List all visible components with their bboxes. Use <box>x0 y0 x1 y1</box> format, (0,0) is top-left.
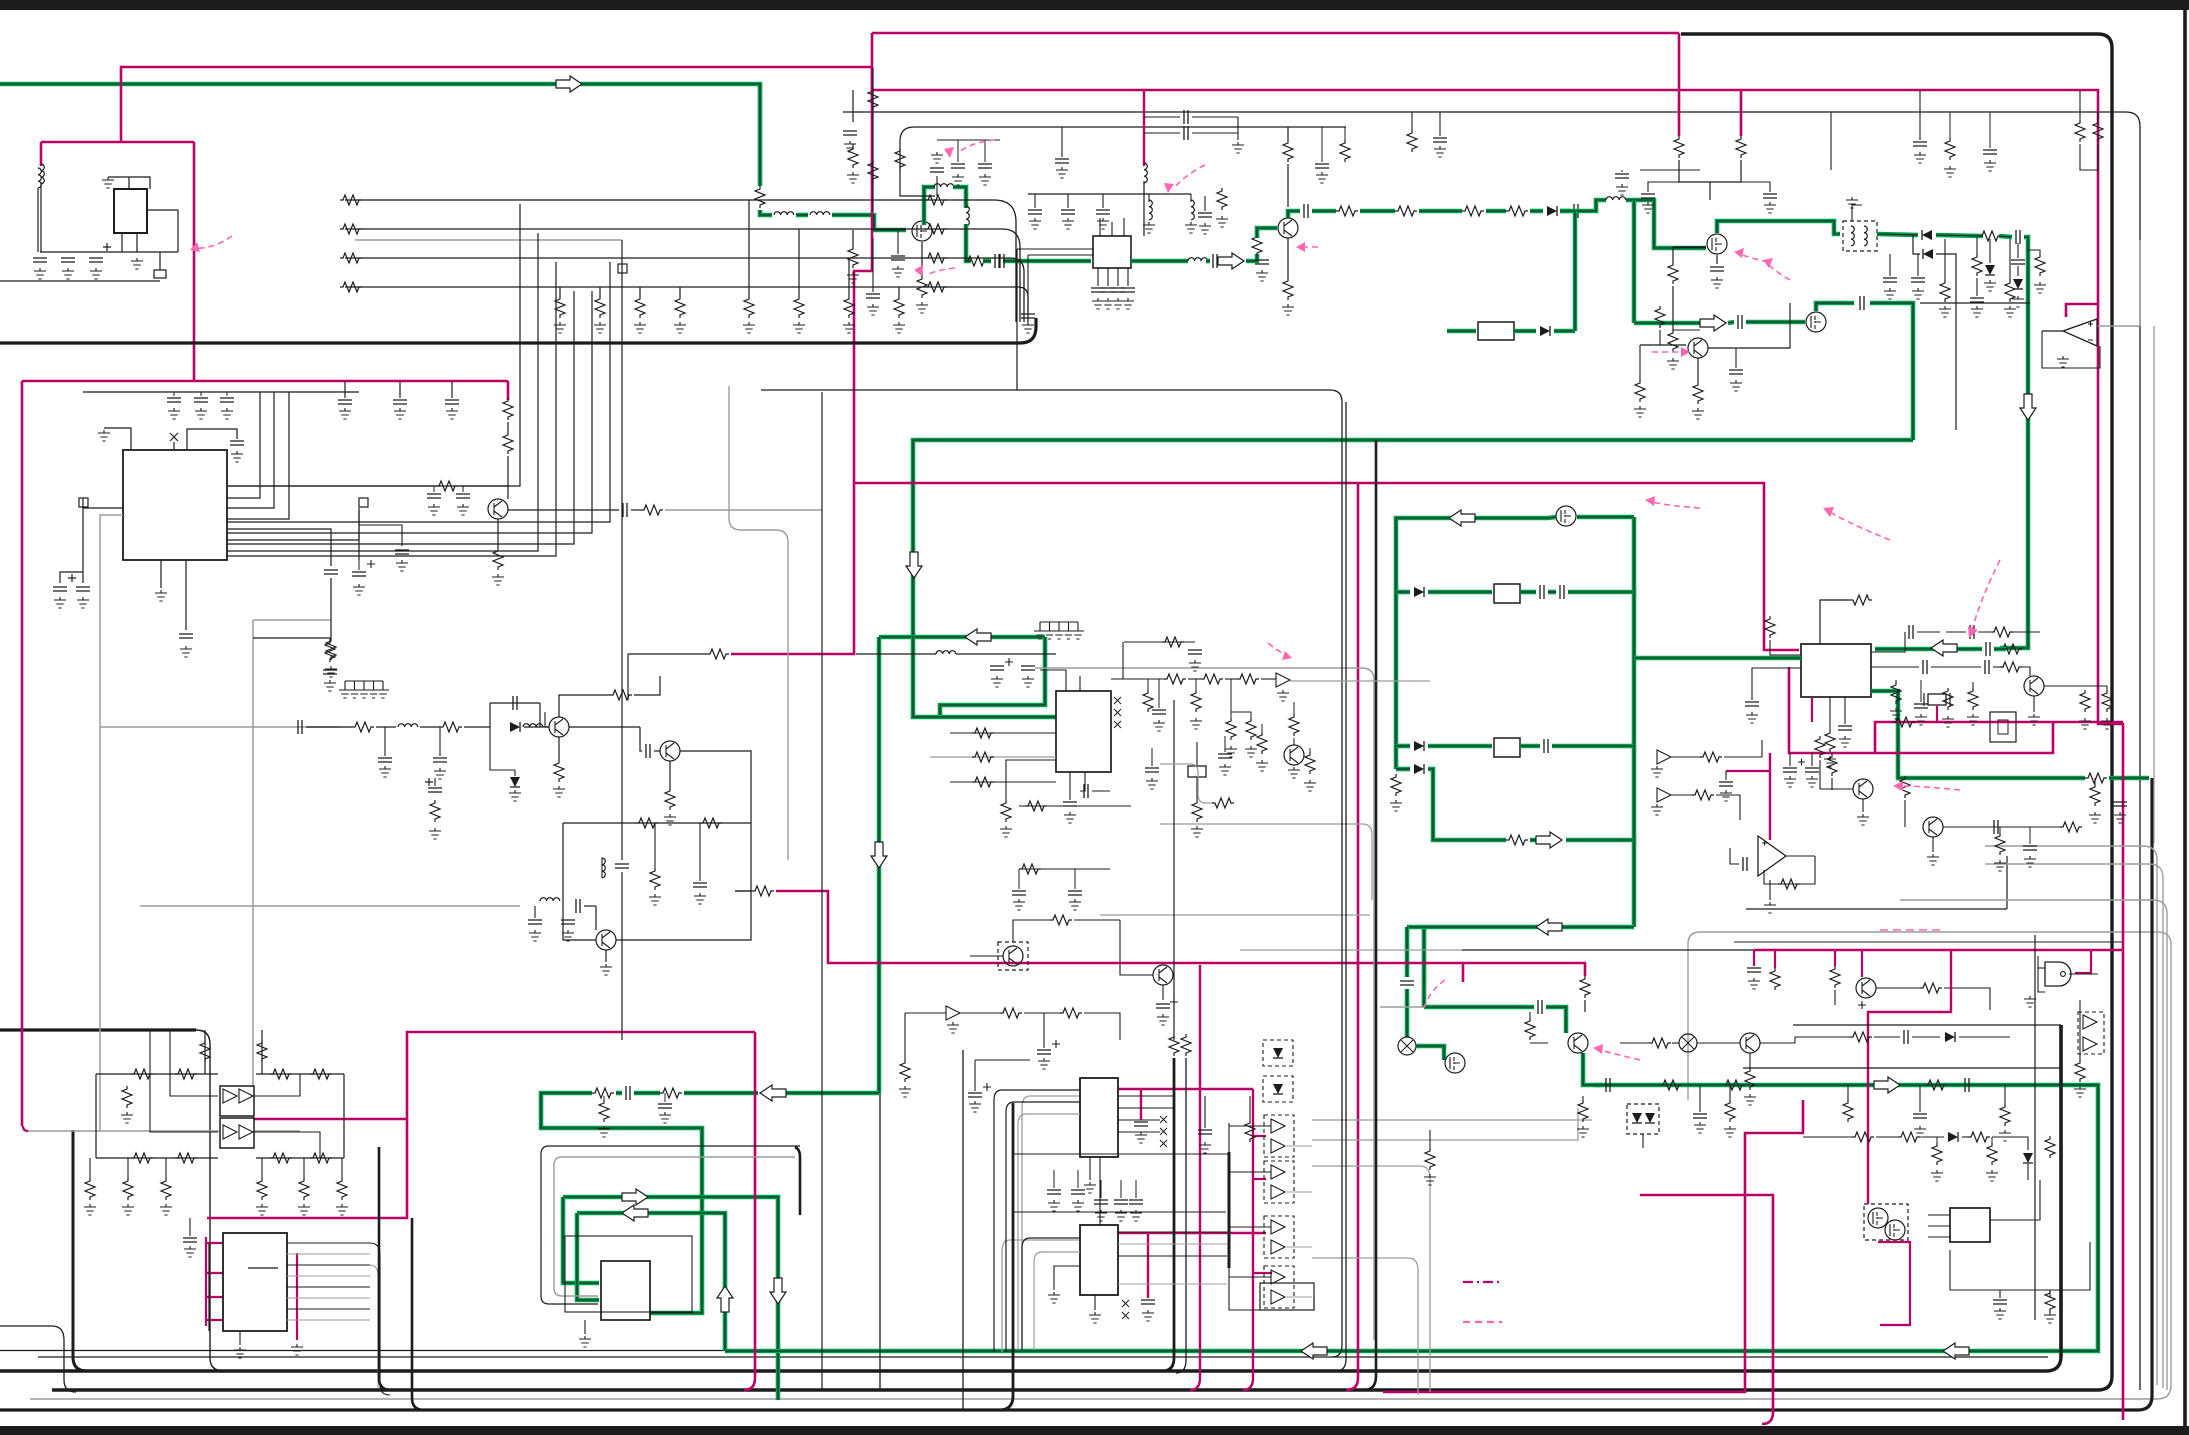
gray y950 left <box>1240 949 1462 951</box>
green G1 cont2 <box>796 213 808 218</box>
wire y1085db <box>1699 1085 1701 1112</box>
wire y654 drop x628 <box>627 654 629 700</box>
resistor y1037 <box>1850 1032 1872 1042</box>
ground above U1 1 <box>339 408 351 419</box>
gray window wrap <box>554 1157 795 1296</box>
capacitor bc link <box>1198 1130 1212 1134</box>
resistor chain a <box>352 722 374 732</box>
resistor q19 emitter <box>493 548 503 570</box>
capacitor tapA h2 <box>1184 126 1188 140</box>
green y211 run b <box>1360 209 1395 214</box>
wire q11 c <box>1943 826 1990 828</box>
wire purple stub <box>1725 771 1727 780</box>
crystal X2 box <box>1188 766 1206 777</box>
buffer triangle b <box>1657 788 1671 802</box>
wire a2 in <box>1730 848 1739 864</box>
green branch down x1634 <box>1632 200 1637 323</box>
wire cap feed above U1 3 <box>451 381 453 398</box>
ground y1137 db <box>1986 1170 1998 1181</box>
wire u4 left row a <box>950 732 1056 734</box>
resistor y211 b <box>1395 206 1417 216</box>
ground y239 da <box>1939 306 1951 317</box>
ground q2 emitter <box>1282 304 1294 315</box>
wire y1037 c <box>1912 1036 1940 1038</box>
ground hang y237 <box>1971 306 1983 317</box>
op-amp A2 triangle <box>1758 836 1786 876</box>
plus cap bc a <box>1037 1050 1051 1054</box>
optocoupler box B <box>220 1118 254 1148</box>
wire u3r y667 d <box>2020 667 2030 676</box>
capacitor y592 <box>1540 585 1544 599</box>
resistor top right col <box>1945 138 1955 160</box>
capacitor col x2120 y800 <box>2113 802 2127 806</box>
ground X1 bus 3 <box>90 268 102 279</box>
wire u6 right pin 3 <box>287 1264 370 1266</box>
wire diode branch <box>1913 235 1920 254</box>
purple tap y950 q <box>1861 950 1863 977</box>
resistor u3 col d <box>1943 688 1953 710</box>
wire u6 right pin 8 <box>287 1319 370 1321</box>
ground q14 <box>600 964 612 975</box>
green G2 horizontal y637 <box>879 635 1045 640</box>
diode chain <box>510 722 520 732</box>
ground lcm2 <box>184 1246 196 1257</box>
wire q11 em <box>1932 837 1934 852</box>
green G1 rise to y211 <box>1288 211 1300 218</box>
ground y392 a <box>168 408 180 419</box>
wire u7row c <box>1100 1180 1102 1198</box>
wire dpb down <box>1642 1134 1644 1148</box>
wire tap y950 c <box>1834 990 1836 1005</box>
purple x872 vertical <box>731 33 872 654</box>
ground q19 em <box>492 574 504 585</box>
resistor x873 a <box>868 88 878 110</box>
wire latch col 3 <box>165 1158 167 1178</box>
wire u3bc <box>1972 682 1974 688</box>
resistor right col a <box>2075 1060 2085 1082</box>
resistor a2 fb <box>1778 879 1800 889</box>
resistor grid row 3 right <box>925 253 947 263</box>
resistor top right pair b <box>2093 120 2103 142</box>
ground pcc2 <box>429 828 441 839</box>
purple x407 lower <box>207 1119 407 1218</box>
ground u10bot2 <box>1994 1308 2006 1319</box>
capacitor U1 top link <box>230 441 244 445</box>
gray y727 run <box>100 726 340 728</box>
ground q9r <box>2079 718 2091 729</box>
wire shunt under chain b <box>490 727 515 770</box>
capacitor above U1 1 <box>338 400 352 404</box>
ground q13 <box>664 814 676 825</box>
resistor x508 chain a <box>503 398 513 420</box>
ground u3 botb <box>1839 736 1851 747</box>
wire y679 b <box>1188 678 1201 680</box>
resistor y1085 drop f <box>2000 1104 2010 1126</box>
resistor u3 bottom <box>1825 730 1835 752</box>
capacitor a2 in <box>1743 857 1747 871</box>
purple box loop y142 <box>41 141 194 144</box>
wire u10 left pins c <box>1928 1236 1950 1238</box>
resistor y1137 a <box>1852 1132 1874 1142</box>
resistor latch col 6 <box>337 1178 347 1200</box>
capacitor right of q2 <box>1315 164 1329 168</box>
resistor y510 <box>641 505 663 515</box>
resistor grid dropper 1 <box>744 296 754 318</box>
ground x331 <box>325 666 337 677</box>
wire q21c <box>1293 765 1295 766</box>
border bottom bar <box>0 1426 2189 1435</box>
capacitor right pad b <box>395 550 409 554</box>
wire hang y1093 <box>603 1096 605 1100</box>
wire u3 right y667 <box>1871 666 1919 668</box>
wire y510 b <box>631 509 641 511</box>
transistor Q12 bjt <box>549 717 569 737</box>
wire x331 c <box>330 620 332 638</box>
component small box <box>154 270 166 278</box>
wire x2007 drop <box>2006 856 2008 909</box>
transformer T1 dashed box <box>1843 221 1877 251</box>
resistor y486 <box>436 481 458 491</box>
purple U3 ground bus <box>1789 667 2053 753</box>
capacitor G1 y261 <box>995 254 999 268</box>
wire cap feed above U1 2 <box>399 381 401 398</box>
wire col x2095 <box>2094 778 2096 784</box>
wire y963 end <box>1584 1000 1586 1012</box>
buffer triangle a <box>1657 750 1671 764</box>
ground pbca2 <box>1038 1058 1050 1069</box>
capacitor bridge <box>513 696 517 710</box>
green G2 drop x913 to U4 <box>913 637 1056 717</box>
wire u7 left fan b <box>1006 1102 1080 1352</box>
wire u7 bottom a <box>1089 1157 1091 1180</box>
resistor right cluster <box>1217 188 1227 210</box>
green drop x1407 b <box>1405 989 1410 1037</box>
transistor Q19 bjt <box>488 499 508 519</box>
wire buf b <box>1671 794 1692 796</box>
diode pair b <box>1645 1113 1655 1123</box>
resistor x331 <box>326 638 336 660</box>
wire bca <box>1024 1012 1060 1014</box>
gray ICB left wires <box>1002 1240 1080 1352</box>
lamp LP1 <box>1398 1037 1416 1055</box>
wire latch col 4 <box>261 1158 263 1178</box>
wire y112 dropb <box>1411 112 1413 130</box>
buffer pair tri b <box>2083 1037 2097 1051</box>
wire u4 y679 run <box>1111 678 1164 680</box>
capacitor t1 area a <box>1883 278 1897 282</box>
ground u3bd <box>1967 714 1979 725</box>
transistor Q15 in dashed box <box>1003 946 1023 966</box>
capacitor y869 a <box>1012 891 1026 895</box>
wire u3 col e <box>1920 680 1922 702</box>
ground cb <box>1256 270 1268 281</box>
resistor u3 below a <box>1891 682 1901 704</box>
gray y906 chain <box>140 905 520 907</box>
ground right pad <box>353 584 365 595</box>
purple U6 pin stub d <box>206 1319 223 1321</box>
ground q3 source <box>1711 277 1723 288</box>
diode branch y254 <box>1923 249 1933 259</box>
capacitor x2018 <box>2011 260 2025 264</box>
wire grid dropper 2 <box>798 229 800 296</box>
wire under q1 <box>921 242 923 276</box>
wire dsh <box>1989 239 1991 263</box>
wire y392 a <box>173 392 175 396</box>
capacitor u4 bottom <box>1063 802 1077 806</box>
buffer U9-2 tri a <box>1271 1165 1285 1179</box>
capacitor u3r y667 b <box>1985 660 1989 674</box>
wire u8 left fan b <box>1034 1252 1080 1350</box>
purple tap y950 a <box>1753 950 1755 966</box>
ground u2 bot 4 <box>1122 298 1134 309</box>
plus right pad <box>367 560 375 568</box>
inductor G1 drain <box>934 184 954 187</box>
arrow right on G1 b <box>1218 253 1244 269</box>
wire chain e <box>524 726 548 728</box>
cluster right caps a <box>1198 213 1212 217</box>
wire u8 bottom <box>1094 1295 1096 1310</box>
wire y281 long <box>0 280 160 282</box>
wire q8bn <box>1659 330 1661 345</box>
resistor grid sub 3 <box>635 296 645 318</box>
wire u8 left fan c <box>1054 1266 1080 1290</box>
purple long drop x1951 <box>1868 950 1951 1204</box>
wire x1186 drop <box>1176 1058 1186 1373</box>
ground y1085df2 <box>1999 1130 2011 1141</box>
purple x1773 drop <box>1640 1195 1773 1424</box>
purple into opamp A2 <box>1769 753 1771 840</box>
capacitor tapA h1 <box>1184 110 1188 124</box>
wire u8 right pins a <box>1118 1231 1227 1233</box>
purple U8 top link <box>1118 1232 1266 1234</box>
gray window right drop <box>795 1147 800 1215</box>
ground rlm2 <box>649 894 661 905</box>
wire chain b <box>376 726 396 728</box>
capacitor u7row e <box>1129 1200 1143 1204</box>
lamp LP2 <box>1679 1034 1697 1052</box>
ground q9r2 <box>2101 718 2113 729</box>
wire latch col 2 <box>127 1158 129 1178</box>
coil below purple x41 <box>41 164 44 184</box>
resistor y1137 b <box>1898 1132 1920 1142</box>
green ladder down-feed x1424 <box>1422 927 1427 1007</box>
wire opamp fb <box>2042 331 2100 368</box>
wire y891 feed <box>735 890 752 892</box>
wire q8ar <box>1735 348 1737 368</box>
wire q13 em <box>669 761 671 788</box>
gray right loops c <box>1900 900 2167 1390</box>
resistor y1085 c <box>1925 1080 1947 1090</box>
wire u10bot <box>1999 1290 2001 1298</box>
wire q12 em <box>558 737 560 760</box>
plus sign bc <box>1052 1040 1060 1048</box>
coil X1 left <box>38 168 41 188</box>
wire q10 base <box>1820 760 1853 789</box>
buffer pair tri a <box>2083 1015 2097 1029</box>
wire coil down <box>37 188 39 252</box>
wire y638b <box>329 638 331 640</box>
resistor y239 drop a <box>1940 280 1950 302</box>
wire trc <box>1949 112 1951 138</box>
wire q19 out y510 <box>508 509 619 511</box>
component trimmer box <box>1990 712 2016 742</box>
resistor u3r y667 <box>2000 662 2022 672</box>
wire u6 bottom <box>239 1331 241 1345</box>
plus sign chain <box>425 778 433 786</box>
transformer T1 winding a <box>1851 226 1854 246</box>
wire pcc <box>434 778 436 786</box>
pad square x622 <box>618 264 627 273</box>
resistor grid row 4 left <box>340 282 362 292</box>
ground q17em <box>1744 1094 1756 1105</box>
wire u2 bot 4 <box>1127 268 1129 286</box>
ground rq2 <box>1316 172 1328 183</box>
capacitor u2 bot 1 <box>1091 288 1105 292</box>
ground buf bc <box>947 1022 959 1033</box>
wire q12o2 <box>640 727 642 751</box>
ground under q1 <box>916 302 928 313</box>
wire right pad down <box>358 511 360 560</box>
resistor y963 end <box>1580 976 1590 998</box>
wire y1137 da <box>1936 1137 1938 1143</box>
wire u7row e <box>1135 1180 1137 1198</box>
wire y679 d <box>1261 678 1276 680</box>
resistor x1186 top <box>1181 1034 1191 1056</box>
transistor Q21 bjt <box>1284 745 1304 765</box>
dashed diode pair box <box>1627 1104 1659 1134</box>
ground buf u4 <box>1277 690 1289 701</box>
green rung y592 a <box>1428 590 1492 595</box>
ground bus cap a <box>1784 776 1796 787</box>
resistor pcc <box>430 800 440 822</box>
capacitor y392 c <box>220 398 234 402</box>
gray stub u4 <box>1160 764 1214 803</box>
green G1 y261 b <box>1003 259 1091 264</box>
ground buf b <box>1651 804 1663 815</box>
ground col x1251 <box>1245 746 1257 757</box>
ground y1085da2 <box>1577 1126 1589 1137</box>
wire bundle U1 pin 2 <box>227 233 538 551</box>
capacitor row194 2 <box>1061 210 1075 214</box>
resistor purple tap x1679 <box>1674 136 1684 158</box>
wire y1037 d <box>1959 1036 2010 1038</box>
thick horizontal y1030 <box>0 1028 196 1031</box>
IC U4 box <box>1056 691 1111 772</box>
wire u4 top pins b <box>1079 676 1081 691</box>
capacitor series y1085 <box>1606 1078 1610 1092</box>
wire latch col 1 <box>89 1158 91 1178</box>
pad square right of U1 <box>359 498 368 507</box>
resistor bus tap <box>1827 754 1837 776</box>
wire bundle U1 pin 5 <box>227 291 592 533</box>
resistor tap y950 c <box>1830 966 1840 988</box>
wire grid dropper 1 <box>748 200 750 296</box>
green y211 run f <box>1560 209 1570 214</box>
resistor loop b <box>700 818 722 828</box>
ground left q1 <box>847 272 859 283</box>
wire y679 c <box>1225 678 1237 680</box>
ground u4ll <box>1000 826 1012 837</box>
wire grid dropper 3 <box>848 258 850 296</box>
wire y486 b <box>460 485 508 487</box>
inductor row194 1 <box>1149 200 1152 220</box>
arrow up x725 <box>717 1286 733 1312</box>
resistor y840 <box>1506 835 1528 845</box>
resistor u4 ext b <box>1257 732 1267 754</box>
green signal path G1 head <box>0 84 760 186</box>
wire u4 ext d <box>1309 748 1311 752</box>
purple right IC box bits <box>1878 1242 1910 1325</box>
resistor y239 drop b <box>2005 280 2015 302</box>
capacitor hang y1093 <box>658 1104 672 1108</box>
resistor y112 drop b <box>1407 130 1417 152</box>
ground col x2120 <box>2114 812 2126 823</box>
wire x853 b <box>852 144 854 146</box>
wire left q1 <box>852 230 854 246</box>
diode series y211 <box>1547 206 1557 216</box>
ground u7row a <box>1048 1200 1060 1211</box>
capacitor y1093 <box>626 1086 630 1100</box>
purple y722 run <box>1875 722 2123 753</box>
resistor bc b <box>1060 1008 1082 1018</box>
wire y806 u4 <box>1019 805 1131 807</box>
resistor latch col 2 <box>123 1178 133 1200</box>
ground y654 b <box>1022 676 1034 687</box>
green y211 run a <box>1312 209 1336 214</box>
green bottom bus y1351 <box>725 1085 2098 1351</box>
diode series y235 <box>1922 230 1932 240</box>
buffer U9-4 tri b <box>1271 1290 1285 1304</box>
wire y942 thin <box>1734 941 2124 943</box>
capacitor y127 drop <box>1055 159 1069 163</box>
transistor Q4 mosfet <box>1806 312 1826 332</box>
green G2 long drop x879 <box>877 637 882 1093</box>
wire u2 top pins <box>1099 218 1101 236</box>
wire buffer 2 out <box>1285 1191 1312 1193</box>
capacitor y906 a <box>528 920 542 924</box>
wire u10 right <box>1990 1180 2040 1220</box>
cross mark U1 top <box>170 433 178 441</box>
capacitor x985 <box>978 164 992 168</box>
ground u8 left <box>1048 1292 1060 1303</box>
ground opamp <box>2057 356 2069 367</box>
ground col x1231 <box>1225 746 1237 757</box>
wire u4 bottom a <box>1069 772 1071 800</box>
capacitor chain <box>298 720 302 734</box>
wire riser u1 b <box>227 392 274 508</box>
wire buf bc in <box>905 1012 946 1014</box>
resistor y1093 a <box>660 1088 682 1098</box>
ground purple stub <box>1720 790 1732 801</box>
green G2 drop x1045 to U4 <box>940 637 1045 717</box>
wire x412 drop <box>412 1218 424 1410</box>
wire right caps top <box>1919 90 1921 140</box>
wire q11 c2 <box>2002 826 2060 828</box>
wire y909 long <box>1746 908 2007 910</box>
wire y1137 d <box>1962 1136 1968 1138</box>
wire bundle U1 pin 4 <box>227 291 574 544</box>
ground y638 <box>324 680 336 691</box>
green from lamp to Q7 <box>1416 1046 1444 1060</box>
resistor bc a <box>1000 1008 1022 1018</box>
ground u3 col d <box>1942 716 1954 727</box>
wire tap joiner y170 <box>1679 160 1741 182</box>
wire y486 bias <box>227 485 436 487</box>
purple stub y771 <box>1726 770 1770 772</box>
ground tapA b <box>1232 142 1244 153</box>
wire y1137 b <box>1876 1136 1898 1138</box>
purple y33 run <box>872 32 1679 35</box>
